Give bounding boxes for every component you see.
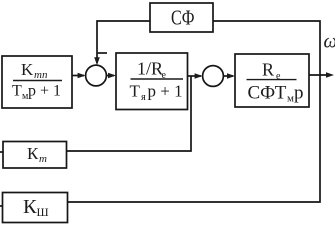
svg-text:Т: Т bbox=[12, 83, 22, 100]
svg-text:СФТ: СФТ bbox=[248, 83, 287, 104]
svg-text:я: я bbox=[141, 92, 146, 103]
svg-text:ω: ω bbox=[324, 32, 335, 53]
svg-text:е: е bbox=[276, 71, 281, 82]
svg-text:K: K bbox=[21, 60, 34, 79]
svg-text:р + 1: р + 1 bbox=[28, 83, 61, 100]
svg-text:К: К bbox=[23, 196, 37, 218]
svg-text:R: R bbox=[262, 60, 274, 80]
svg-text:К: К bbox=[27, 144, 39, 163]
svg-text:м: м bbox=[287, 93, 294, 105]
svg-text:Т: Т bbox=[130, 81, 141, 100]
svg-text:Ш: Ш bbox=[37, 205, 49, 219]
svg-text:р + 1: р + 1 bbox=[148, 81, 183, 100]
svg-text:р: р bbox=[294, 83, 304, 104]
svg-text:m: m bbox=[39, 153, 47, 165]
svg-text:СФ: СФ bbox=[171, 6, 195, 30]
svg-text:1/R: 1/R bbox=[137, 59, 163, 79]
svg-text:mn: mn bbox=[34, 69, 48, 81]
